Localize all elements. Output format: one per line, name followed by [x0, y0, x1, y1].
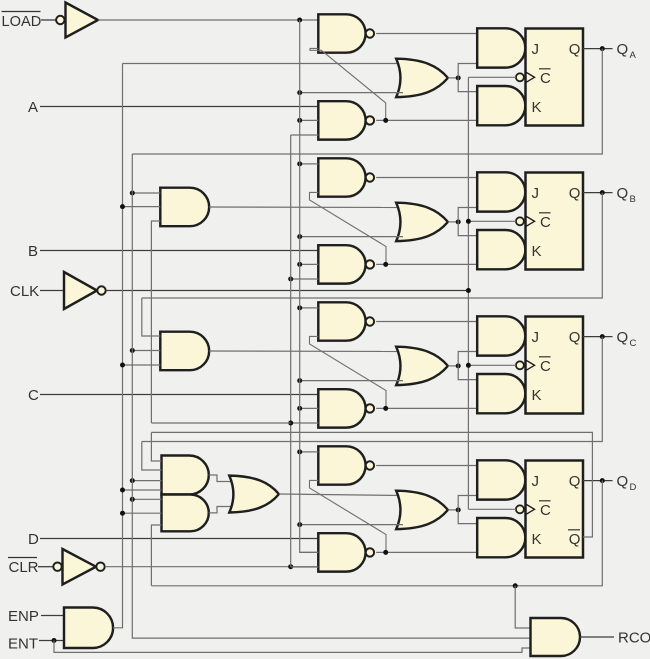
- wire O2 output: [448, 221, 458, 223]
- wire CLR to inverter: [38, 566, 53, 568]
- wire T to OR1 upper input: [123, 63, 403, 65]
- junction LOAD' tap2 row A: [297, 118, 302, 123]
- flip-flop FF2 (QB): [526, 173, 584, 270]
- wire ENT to RCO gate: [54, 641, 531, 653]
- wire CLR' row C/B horizontal: [151, 422, 290, 424]
- svg-text:J: J: [532, 473, 540, 490]
- junction QA tap row B: [130, 191, 135, 196]
- wire O1 output: [448, 77, 458, 79]
- svg-text:C: C: [540, 214, 551, 231]
- nand N3: [318, 158, 365, 196]
- wire RCO output: [580, 636, 614, 638]
- junction bus300 tap OR row D: [297, 522, 302, 527]
- wire G3 out to OR3: [209, 350, 402, 353]
- or-gate G6 (row D count or): [229, 476, 279, 513]
- svg-text:J: J: [532, 41, 540, 58]
- junction T tap G5: [120, 511, 125, 516]
- wire O4 output: [448, 509, 458, 511]
- svg-text:C: C: [28, 387, 39, 404]
- nand N8: [318, 533, 365, 571]
- svg-text:Q: Q: [617, 329, 629, 346]
- wire O4 to K-AND in1: [458, 510, 477, 524]
- and-gate G5 (row D count term lower): [162, 495, 209, 532]
- wire T to G2 in2: [123, 206, 161, 208]
- and-gate J4a (J input): [477, 460, 525, 499]
- wire QB feedback: [142, 193, 603, 298]
- junction N8 out junction: [383, 550, 388, 555]
- wire QD feedback: [151, 480, 602, 585]
- junction clock tap FF3: [466, 363, 471, 368]
- flip-flop FF3 (QC): [526, 317, 584, 414]
- wire LOAD' to N5 in1: [300, 307, 319, 309]
- and-gate G2 (row B count term): [160, 188, 209, 227]
- svg-text:D: D: [28, 531, 39, 548]
- svg-text:C: C: [540, 358, 551, 375]
- junction LOAD' tap2 row C: [297, 406, 302, 411]
- svg-text:K: K: [532, 387, 542, 404]
- wire QB down to G3 in1: [142, 298, 161, 336]
- wire N7 out to J-AND in1: [376, 465, 477, 467]
- and-gate G3 (row C count term): [160, 332, 209, 371]
- wire CLK' line: [106, 290, 469, 292]
- svg-text:B: B: [28, 243, 38, 260]
- wire QA feedback: [132, 49, 602, 154]
- wire O3 to J-AND in2: [458, 352, 477, 366]
- wire LOAD' to N6 in2: [300, 407, 319, 409]
- junction N4 out junction: [383, 262, 388, 267]
- junction N6 out junction: [383, 406, 388, 411]
- wire O1 to K-AND in1: [458, 78, 477, 92]
- svg-text:K: K: [532, 243, 542, 260]
- svg-text:CLR: CLR: [9, 559, 39, 576]
- junction CLR' tap row B: [288, 277, 293, 282]
- wire CLR' to N2 in3: [291, 134, 319, 136]
- junction QC junction: [600, 334, 605, 339]
- wire LOAD' line: [98, 19, 318, 21]
- svg-text:A: A: [630, 50, 637, 61]
- junction LOAD' tap row C: [297, 305, 302, 310]
- nand N6: [318, 389, 365, 427]
- junction T tap G4: [120, 488, 125, 493]
- nand N1: [318, 14, 365, 52]
- wire N1 out to J-AND in1: [376, 33, 477, 35]
- junction QD junction: [600, 478, 605, 483]
- and-gate K3a (K input): [477, 374, 525, 413]
- svg-text:Q: Q: [569, 185, 581, 202]
- wire QD up to G5 in3: [151, 525, 161, 586]
- wire LOAD' to O3 lower input: [300, 380, 403, 382]
- wire N3 out to J-AND in1: [376, 177, 477, 179]
- svg-text:Q: Q: [569, 41, 581, 58]
- junction T tap row C: [120, 363, 125, 368]
- wire B line: [40, 250, 318, 252]
- svg-text:Q: Q: [569, 473, 581, 490]
- nand N4: [318, 245, 365, 283]
- svg-text:C: C: [630, 338, 637, 349]
- wire CLR' to N6 in3: [291, 422, 319, 424]
- wire LOAD' to N3 in1: [300, 163, 319, 165]
- wire LOAD to inverter: [41, 19, 56, 21]
- wire cross N4 out to N3 in2: [310, 192, 387, 264]
- svg-text:D: D: [630, 482, 637, 493]
- svg-text:B: B: [630, 194, 636, 205]
- wire QA output: [583, 48, 613, 50]
- wire T to G3 in3: [123, 364, 161, 366]
- junction QB junction: [600, 190, 605, 195]
- and-gate K4a (K input): [477, 518, 525, 557]
- wire LOAD' to N4 in2: [300, 263, 319, 265]
- junction LOAD' tap2 row B: [297, 262, 302, 267]
- junction CLR'/bus291: [288, 564, 293, 569]
- and-gate J1a (J input): [477, 28, 525, 67]
- wire QD to RCO in1: [515, 586, 530, 628]
- wire QbarD down to G4 in1: [151, 432, 161, 461]
- wire LOAD' to O1 lower input: [300, 92, 403, 94]
- inverter U2 (CLK): [64, 272, 97, 309]
- junction ENT branch: [52, 638, 57, 643]
- and-gate G4 (row D count term upper): [162, 456, 209, 495]
- junction O2 branch: [456, 219, 461, 224]
- wire cross N2 out to N1 in2: [310, 48, 386, 120]
- wire G4 out to OR: [209, 475, 234, 482]
- junction O1 branch: [456, 75, 461, 80]
- wire LOAD' to O4 lower input: [300, 524, 403, 526]
- wire QA bus vertical to RCO: [132, 154, 530, 638]
- wire D line: [40, 538, 318, 540]
- wire C line: [40, 394, 318, 396]
- svg-text:Q: Q: [617, 185, 629, 202]
- wire O3 output: [448, 365, 458, 367]
- and-gate K2a (K input): [477, 230, 525, 269]
- wire QC feedback: [142, 337, 603, 442]
- or-gate O4: [396, 491, 448, 529]
- svg-text:J: J: [532, 185, 540, 202]
- wire cross N6 out to N5 in2: [310, 336, 387, 408]
- junction LOAD' tap row D: [297, 449, 302, 454]
- wire QC down to G4 in2: [142, 442, 162, 471]
- wire G5 out to OR: [209, 507, 234, 513]
- and-gate K1a (K input): [477, 86, 525, 125]
- wire N2 out to K-AND in2: [376, 119, 477, 121]
- inverter U3 (CLR): [53, 563, 61, 571]
- wire A line: [40, 106, 318, 108]
- wire QB output: [583, 192, 613, 194]
- junction QA tap G5: [130, 497, 135, 502]
- wire N6 out to K-AND in2: [376, 407, 477, 409]
- wire QD output: [583, 480, 613, 482]
- svg-text:J: J: [532, 329, 540, 346]
- wire LOAD' to N2 in2: [300, 119, 319, 121]
- svg-text:Q: Q: [617, 41, 629, 58]
- or-gate O1: [396, 59, 448, 97]
- svg-text:Q: Q: [617, 473, 629, 490]
- wire QbarD feedback: [151, 432, 592, 537]
- svg-text:RCO: RCO: [618, 629, 650, 646]
- wire T to G5 in2: [123, 512, 162, 514]
- wire clock to FF4: [468, 508, 516, 510]
- junction O3 branch: [456, 363, 461, 368]
- svg-text:Q: Q: [569, 531, 581, 548]
- svg-text:LOAD: LOAD: [2, 14, 42, 30]
- wire QA to G2 in1: [132, 192, 160, 194]
- wire T to G4 in4: [123, 489, 162, 491]
- wire bus291 CLR' vertical: [290, 135, 292, 567]
- junction bus300 tap OR row A: [297, 90, 302, 95]
- nand N5: [318, 302, 365, 340]
- wire clock to FF3: [468, 364, 516, 366]
- wire LOAD' to N7 in1: [300, 451, 319, 453]
- junction O4 branch: [456, 507, 461, 512]
- junction clock junction: [466, 288, 471, 293]
- wire O3 to K-AND in1: [458, 366, 477, 380]
- junction clock tap FF2: [466, 219, 471, 224]
- and-gate J3a (J input): [477, 316, 525, 355]
- wire CLR to G2 in3: [151, 221, 160, 423]
- and-gate J2a (J input): [477, 172, 525, 211]
- wire QA to G5 in1: [132, 498, 161, 500]
- wire CLR' to N4 in3: [291, 278, 319, 280]
- wire ENP to gate: [41, 615, 64, 617]
- junction N2 out junction: [383, 118, 388, 123]
- wire QC output: [583, 336, 613, 338]
- junction LOAD'/bus300: [297, 18, 302, 23]
- svg-text:ENP: ENP: [8, 608, 39, 625]
- junction QA tap row C: [130, 348, 135, 353]
- junction T tap row B: [120, 204, 125, 209]
- wire G6 out to OR4 upper input: [279, 494, 403, 496]
- junction bus300 tap OR row B: [297, 234, 302, 239]
- wire G2 out to OR2: [209, 206, 402, 209]
- wire ENT to gate: [39, 640, 64, 642]
- and-gate G1 (ENP.ENT): [64, 608, 113, 649]
- wire CLK to inverter: [40, 290, 64, 292]
- inverter U1 (LOAD): [56, 16, 64, 24]
- junction bus300 tap OR row C: [297, 378, 302, 383]
- wire T enable bus: [113, 64, 123, 628]
- wire CLR' line: [105, 566, 318, 568]
- wire LOAD' to N8 in2: [300, 551, 319, 553]
- junction QA tap G4: [130, 478, 135, 483]
- wire LOAD' to O2 lower input: [300, 236, 403, 238]
- wire clock to FF2: [468, 220, 516, 222]
- wire O2 to J-AND in2: [458, 208, 477, 222]
- junction LOAD' tap row B: [297, 161, 302, 166]
- wire QA to G3 in2: [132, 350, 160, 352]
- or-gate O2: [396, 203, 448, 241]
- and-gate G7 (RCO): [531, 618, 581, 656]
- wire O2 to K-AND in1: [458, 222, 477, 236]
- nand N2: [318, 101, 365, 139]
- wire bus468 clock vertical: [467, 77, 469, 509]
- nand N7: [318, 446, 365, 484]
- svg-text:K: K: [532, 99, 542, 116]
- wire cross N8 out to N7 in2: [310, 480, 387, 552]
- wire N5 out to J-AND in1: [376, 321, 477, 323]
- wire clock to FF1: [468, 76, 516, 78]
- wire bus300 LOAD' vertical: [300, 20, 319, 552]
- svg-text:CLK: CLK: [10, 283, 39, 300]
- wire QA to G4 in3: [132, 480, 161, 482]
- or-gate O3: [396, 347, 448, 385]
- junction QA junction: [600, 46, 605, 51]
- junction CLR' tap row C line: [288, 421, 293, 426]
- svg-text:ENT: ENT: [8, 636, 38, 653]
- flip-flop FF4 (QD): [526, 461, 584, 558]
- svg-text:A: A: [28, 99, 38, 116]
- wire O4 to J-AND in2: [458, 496, 477, 510]
- svg-text:Q: Q: [569, 329, 581, 346]
- junction QD to RCO tap: [513, 583, 518, 588]
- flip-flop FF1 (QA): [526, 29, 584, 126]
- wire N8 out to K-AND in2: [376, 551, 477, 553]
- svg-text:C: C: [540, 70, 551, 87]
- wire O1 to J-AND in2: [458, 64, 477, 78]
- wire CLR' to N8 in3: [291, 566, 319, 568]
- svg-text:C: C: [540, 502, 551, 519]
- svg-text:K: K: [532, 531, 542, 548]
- wire N4 out to K-AND in2: [376, 263, 477, 265]
